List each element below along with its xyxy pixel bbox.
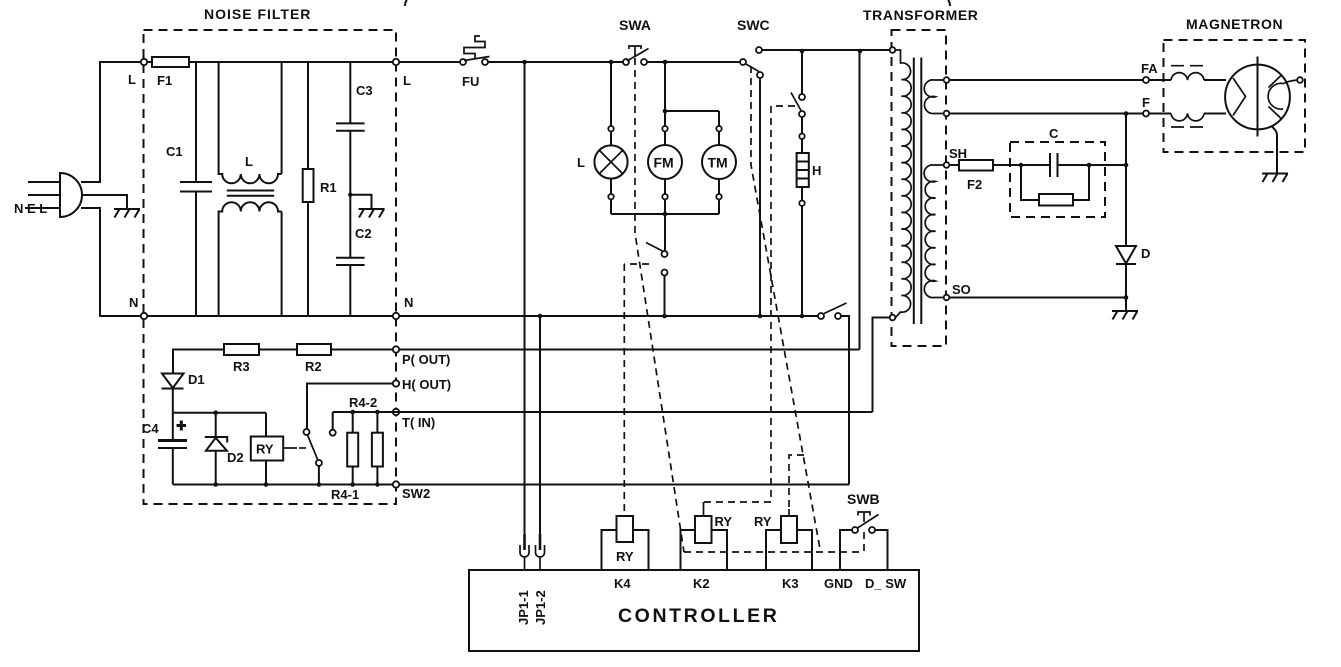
cropped title parenthesis right (948, 0, 950, 6)
lamp terminals (608, 126, 613, 131)
svg-text:TM: TM (708, 155, 728, 171)
fan motor FM branch (664, 62, 666, 214)
SWA mechanical linkage (635, 58, 684, 552)
svg-text:P( OUT): P( OUT) (402, 352, 450, 367)
svg-text:TRANSFORMER: TRANSFORMER (863, 7, 978, 23)
switch SWC (737, 17, 770, 78)
svg-text:F2: F2 (967, 177, 982, 192)
svg-text:R2: R2 (305, 359, 322, 374)
svg-text:L: L (128, 72, 136, 87)
ground below diode (1125, 298, 1127, 312)
svg-text:C2: C2 (355, 226, 372, 241)
resistor R4-2 (347, 395, 377, 485)
svg-text:CONTROLLER: CONTROLLER (618, 605, 779, 627)
heater H (797, 117, 822, 316)
svg-text:L: L (245, 154, 253, 169)
wire plug earth (81, 195, 127, 209)
svg-text:FA: FA (1141, 61, 1158, 76)
svg-text:RY: RY (616, 549, 634, 564)
resistor R2 (297, 344, 331, 355)
svg-text:SW2: SW2 (402, 486, 430, 501)
transformer primary winding (896, 50, 912, 318)
F terminal on transformer (944, 111, 950, 117)
relay K4 (602, 516, 649, 591)
heater branch junction (800, 49, 805, 54)
TM motor (702, 145, 736, 179)
thermal fuse FU (460, 36, 490, 89)
svg-text:H: H (812, 163, 821, 178)
switch SWA (619, 17, 651, 65)
wire SWA to SWC (647, 61, 740, 63)
zener D2 (205, 413, 244, 485)
capacitor C3 (336, 62, 373, 195)
transformer dashed box (892, 30, 947, 346)
magnetron dashed box (1164, 40, 1306, 152)
svg-text:FU: FU (462, 74, 479, 89)
door switch linkage dashes (624, 264, 649, 516)
relay coil RY (251, 413, 307, 485)
node N left (141, 313, 147, 319)
T(IN) line (399, 411, 873, 413)
capacitor C2 (336, 195, 372, 316)
fuse F1 (147, 57, 396, 88)
junction JP1-1 branch (522, 60, 527, 65)
JP1-2 connector fork (536, 545, 545, 570)
svg-text:N E L: N E L (14, 201, 47, 216)
filament winding (924, 80, 943, 114)
relay K3 (754, 509, 812, 591)
K3 linkage (789, 455, 804, 509)
capacitor C (1050, 153, 1126, 177)
svg-text:F1: F1 (157, 73, 172, 88)
noise filter N rail (147, 315, 393, 317)
svg-text:L: L (403, 73, 411, 88)
JP1-2 wire (539, 316, 541, 534)
svg-text:K3: K3 (782, 576, 799, 591)
relay changeover contact (304, 384, 394, 485)
magnetron anode terminal (1297, 77, 1303, 83)
svg-text:RY: RY (754, 514, 772, 529)
lamp L branch wire (610, 62, 612, 214)
P(OUT) ladder wire (331, 349, 393, 351)
junction lamp branch (609, 60, 614, 65)
svg-text:JP1-1: JP1-1 (516, 590, 531, 625)
svg-text:SWB: SWB (847, 491, 880, 507)
svg-text:C1: C1 (166, 144, 183, 159)
node N right (393, 313, 399, 319)
magnetron ground (1262, 126, 1288, 182)
door switch on FM line (646, 214, 668, 316)
heater switch linkage (704, 106, 795, 502)
SWC lower contact wire down (759, 78, 761, 316)
capacitor C4 (142, 413, 187, 485)
ground tap between C3 and C2 (348, 193, 384, 218)
F wire (950, 113, 1144, 115)
svg-text:R1: R1 (320, 180, 337, 195)
F choke (1171, 114, 1226, 128)
wire plug to N line (81, 208, 144, 316)
rail door switch SW2 contact (818, 303, 849, 485)
svg-text:T( IN): T( IN) (402, 415, 435, 430)
svg-text:C: C (1049, 126, 1059, 141)
svg-text:RY: RY (715, 514, 733, 529)
transformer primary top terminal (890, 47, 896, 53)
svg-text:D: D (1141, 246, 1150, 261)
P(OUT) riser to top line (859, 51, 861, 350)
AC plug P1 (25, 173, 82, 217)
svg-text:K2: K2 (693, 576, 710, 591)
SH terminal (944, 162, 950, 168)
svg-text:RY: RY (256, 442, 274, 457)
svg-text:MAGNETRON: MAGNETRON (1186, 16, 1283, 32)
top L wire to FU (399, 61, 460, 63)
svg-text:SO: SO (952, 282, 971, 297)
node T(IN) (393, 409, 399, 415)
SO terminal (944, 295, 950, 301)
node L right (393, 59, 399, 65)
diode D1 (162, 372, 205, 413)
SW2 internal rail (173, 484, 393, 486)
capacitor C dashed box (1010, 142, 1105, 217)
controller box (469, 570, 919, 651)
T(IN) riser to transformer primary (873, 318, 891, 413)
ground near plug (114, 209, 140, 218)
P(OUT) line (399, 349, 860, 351)
resistor R4-1 (331, 410, 383, 502)
svg-text:F: F (1142, 95, 1150, 110)
svg-text:R4-1: R4-1 (331, 487, 359, 502)
transformer core (914, 58, 922, 325)
svg-text:N: N (129, 295, 138, 310)
magnetron tube (1225, 57, 1297, 137)
node P(OUT) (393, 346, 399, 352)
wire plug to L line (81, 62, 144, 182)
svg-text:R3: R3 (233, 359, 250, 374)
svg-text:FM: FM (654, 155, 674, 171)
switch SWB (840, 491, 888, 570)
FM motor (648, 145, 682, 179)
bottom bracket lamp FM TM (611, 213, 719, 215)
fuse F2 (950, 160, 1051, 192)
junction FM branch (663, 60, 668, 65)
capacitor C1 (166, 62, 212, 316)
svg-text:K4: K4 (614, 576, 631, 591)
svg-text:N: N (404, 295, 413, 310)
internal node line (173, 412, 266, 414)
svg-text:NOISE FILTER: NOISE FILTER (204, 6, 311, 22)
diode D (1116, 111, 1150, 297)
FA terminal on transformer (944, 77, 950, 83)
common-mode choke L (219, 62, 282, 316)
node L left (141, 59, 147, 65)
svg-text:H( OUT): H( OUT) (402, 377, 451, 392)
C bleed resistor (1019, 163, 1092, 206)
noise filter dashed box (144, 30, 397, 504)
svg-text:SH: SH (949, 146, 967, 161)
svg-text:C3: C3 (356, 83, 373, 98)
linkage bar (684, 551, 864, 553)
N rail (399, 315, 818, 317)
resistor R3 (224, 344, 259, 355)
T(IN) left end to open contact (333, 412, 399, 430)
JP1-1 connector fork (520, 545, 529, 570)
relay K2 (681, 502, 733, 591)
node SW2 (393, 481, 399, 487)
node H(OUT) (393, 380, 399, 386)
svg-text:C4: C4 (142, 421, 159, 436)
svg-text:JP1-2: JP1-2 (533, 590, 548, 625)
HV secondary winding (924, 165, 943, 298)
svg-text:GND: GND (824, 576, 853, 591)
cropped title parenthesis left (405, 0, 407, 6)
svg-text:D_ SW: D_ SW (865, 576, 907, 591)
svg-text:SWC: SWC (737, 17, 770, 33)
svg-text:R4-2: R4-2 (349, 395, 377, 410)
svg-text:L: L (577, 155, 585, 170)
SWB linkage drop (863, 532, 865, 552)
FA choke (1171, 66, 1226, 80)
SWC mechanical linkage (751, 66, 820, 549)
transformer primary bottom terminal (890, 315, 896, 321)
FA wire (950, 79, 1144, 81)
svg-text:D2: D2 (227, 450, 244, 465)
svg-text:SWA: SWA (619, 17, 651, 33)
SO wire (950, 297, 1127, 299)
turntable motor TM branch (665, 111, 719, 214)
heater door switch (791, 51, 805, 117)
wire FU to SWA (488, 61, 623, 63)
JP1-1 wire (524, 62, 526, 534)
wire SWC to transformer (762, 49, 890, 51)
svg-text:D1: D1 (188, 372, 205, 387)
resistor R1 (303, 62, 337, 316)
lamp L (577, 145, 628, 178)
SW2 line (399, 484, 849, 486)
